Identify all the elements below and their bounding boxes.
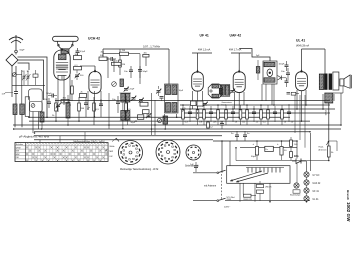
coil IFT2a — [221, 85, 225, 95]
trimmer C5 — [56, 100, 61, 112]
coil IFT1d — [172, 103, 177, 113]
trimmer circle — [13, 66, 23, 77]
trimmer below UF41 — [203, 102, 208, 107]
label UF 41 — [200, 34, 209, 38]
resistor below UF41 b — [197, 101, 203, 106]
svg-text:Dr.: Dr. — [266, 148, 269, 151]
resistor 50k — [217, 105, 224, 125]
bead left — [58, 44, 60, 46]
wire yoke leg left — [58, 42, 62, 50]
trimmer osc — [75, 70, 85, 80]
resistor 1M vert — [119, 49, 126, 75]
svg-text:LW: LW — [16, 157, 19, 159]
wire bus y136 — [34, 135, 222, 137]
capacitor 10nF c — [112, 96, 120, 113]
discriminator transformer — [208, 84, 223, 98]
svg-text:Diode: Diode — [222, 104, 227, 106]
wire V5 pins — [297, 90, 306, 121]
svg-text:UF 41: UF 41 — [200, 34, 209, 38]
resistor 1000 box — [112, 61, 122, 66]
label 10pF — [179, 90, 184, 92]
capacitor 0.5pF — [76, 48, 86, 56]
text pF-Abgleich — [19, 134, 50, 138]
resistor 40k — [143, 53, 149, 66]
wire switchbox drops — [240, 183, 270, 202]
wire field coil down — [328, 103, 330, 146]
output transformer — [319, 72, 339, 90]
pot circle — [157, 118, 161, 122]
resistor osc pack3 — [138, 115, 144, 120]
wire bus y129 — [13, 128, 341, 130]
antenna — [9, 35, 23, 50]
svg-text:0,1: 0,1 — [189, 113, 192, 115]
wire input loop outer — [18, 57, 48, 117]
text mit Antenne — [204, 185, 217, 188]
svg-text:50pF: 50pF — [20, 50, 26, 52]
capacitor 25 — [252, 106, 259, 124]
wire junction dots — [13, 100, 342, 203]
svg-text:Brandt: Brandt — [346, 190, 350, 200]
wire power second bus — [240, 147, 297, 149]
trimmer osc2 — [124, 87, 129, 92]
coil IFT1c — [166, 103, 171, 113]
mains switch lower — [193, 198, 226, 201]
trimmer C1 — [22, 71, 27, 86]
label 0.97-1.7MHz — [143, 45, 161, 49]
capacitor 10nF out — [281, 68, 290, 80]
switch position table frame — [15, 143, 108, 162]
resistor under UL41 — [291, 92, 299, 95]
capacitor row2 — [220, 121, 224, 129]
table X marks — [26, 146, 107, 161]
phono jacks — [319, 141, 338, 151]
resistor 30k — [74, 54, 82, 60]
svg-text:KW: KW — [16, 151, 19, 153]
capacitor 200pF — [44, 98, 51, 108]
wire V4 pins — [235, 92, 245, 117]
label 5pF — [256, 55, 260, 57]
capacitor 100pF b — [99, 99, 103, 117]
svg-text:URDOX: URDOX — [265, 186, 272, 188]
resistor at x226 — [225, 105, 228, 125]
label 494 28 mA — [296, 45, 310, 48]
svg-text:UCH 42: UCH 42 — [88, 37, 100, 41]
svg-text:60Ω: 60Ω — [294, 156, 298, 158]
resistor 0.2M row2 — [207, 122, 214, 129]
coil L2 antenna — [20, 70, 25, 127]
wire bus y105 — [180, 104, 330, 106]
wire input loop middle — [18, 60, 44, 100]
text Messsender — [74, 141, 106, 144]
coil L6 band — [66, 95, 70, 125]
svg-text:494 1,3 mA: 494 1,3 mA — [198, 49, 211, 52]
wire screen drops — [33, 112, 39, 134]
capacitor 1nF sw — [190, 162, 198, 172]
resistor at x268 — [267, 105, 270, 125]
capacitor 100pF — [107, 57, 116, 61]
wire top bus AVC — [103, 49, 169, 57]
oscillator coil pack frame — [120, 93, 132, 121]
capacitor at x275 — [273, 106, 277, 122]
coil L osc2 — [120, 79, 124, 87]
coil L1 antenna — [13, 66, 17, 127]
svg-text:Antennen: Antennen — [319, 148, 327, 151]
svg-text:UY 1N: UY 1N — [313, 175, 320, 177]
switch wafer view 2 — [156, 140, 180, 164]
wire bus y132 — [34, 131, 310, 133]
svg-text:100pF: 100pF — [46, 93, 52, 95]
caption Seitenansicht — [185, 164, 199, 167]
label 50pF pack — [131, 122, 136, 124]
capacitor at x190 — [188, 106, 192, 122]
wire trimmer row — [12, 70, 45, 85]
capacitor ratio b — [285, 78, 289, 87]
wire osc pack stubs — [123, 102, 128, 129]
coil L4 — [40, 100, 44, 129]
svg-text:Werkseitige Tastenbestückung -: Werkseitige Tastenbestückung - W-Nr. — [120, 168, 159, 171]
loudspeaker — [340, 75, 351, 88]
resistor 50k top — [99, 55, 107, 60]
svg-text:2k: 2k — [81, 92, 83, 94]
wire bus y140 — [34, 139, 213, 141]
switch comb teeth — [246, 168, 284, 173]
capacitor 50uF elco a — [251, 141, 259, 160]
resistor 0.5M vert — [125, 96, 132, 121]
switch levers — [230, 171, 268, 182]
resistor osc pack — [140, 102, 148, 106]
wire loop narrow — [25, 97, 29, 117]
capacitor under UL41 — [287, 93, 291, 95]
wire bus y117 — [29, 116, 290, 118]
switch assembly frame — [227, 166, 290, 184]
resistor 0.1M — [74, 65, 82, 70]
detector core — [267, 69, 273, 77]
label 0.25uF cluster — [182, 108, 191, 115]
wire table drops — [40, 132, 85, 143]
wire OT drops — [323, 94, 334, 109]
coil IFT2b — [225, 85, 229, 95]
svg-text:Heizk.: Heizk. — [319, 147, 325, 149]
coil OSCb — [126, 94, 130, 103]
resistor 0,3 — [182, 105, 189, 125]
caption Tastenbestueckung — [120, 168, 159, 171]
svg-text:1M: 1M — [199, 122, 202, 124]
resistor 0,1 — [239, 105, 246, 125]
svg-text:UF 41: UF 41 — [313, 191, 320, 193]
svg-text:1M: 1M — [122, 64, 125, 66]
capacitor 0.1uF mains — [243, 194, 256, 201]
IF transformer 2 frame — [220, 85, 230, 97]
resistor 30k box — [61, 98, 69, 103]
trimmer osc pack c — [146, 113, 151, 118]
tube V1 UCH42 mixer — [54, 48, 70, 80]
wire switchbox feed — [229, 141, 231, 166]
heater UY41 — [304, 172, 320, 177]
coil L9 low — [163, 116, 168, 129]
capacitor 50 — [287, 106, 294, 124]
band filter screen box — [30, 102, 43, 112]
resistor 0.3M vert — [93, 97, 100, 125]
detector transformer frame — [263, 61, 277, 84]
wire grid cap V1 — [61, 50, 63, 54]
tube V4 UAF42 — [233, 70, 245, 93]
wire det leads — [266, 84, 274, 105]
table row labels — [16, 143, 24, 159]
svg-text:50pF: 50pF — [131, 122, 136, 124]
coil IFT1a — [166, 85, 171, 95]
resistor at x204 — [203, 105, 206, 125]
label 1.25pF — [128, 89, 135, 91]
wire bus y125 — [13, 124, 341, 126]
wire grid feed UAF42 — [231, 53, 251, 72]
germanium diode det — [278, 76, 287, 81]
switch wafer view 3 small — [186, 145, 201, 160]
svg-text:1,25pF: 1,25pF — [128, 89, 135, 91]
wire V3 pins — [193, 91, 203, 113]
capacitor 50uF elco b — [277, 141, 287, 160]
svg-text:MW: MW — [110, 151, 114, 153]
label UL 41 — [296, 39, 305, 43]
wire corner x169 — [168, 49, 170, 84]
dial lamp — [290, 183, 300, 197]
wire det top — [239, 49, 270, 62]
svg-text:LW: LW — [110, 156, 113, 158]
heater UF41 — [304, 188, 320, 193]
wire yoke leg right — [69, 42, 73, 50]
coil OSCa — [121, 94, 125, 103]
coil det lower — [264, 78, 275, 82]
field coil — [324, 93, 333, 116]
wire osc verticals — [108, 57, 114, 78]
IF transformer 1 frame — [165, 84, 179, 113]
selenium rectifier diode — [292, 156, 306, 164]
heater UAF42 — [304, 180, 321, 185]
mains switch upper — [193, 170, 226, 174]
svg-text:100pF: 100pF — [279, 64, 285, 66]
ferrite antenna bar — [53, 36, 79, 41]
svg-text:UKW: UKW — [16, 147, 21, 149]
svg-text:1nF: 1nF — [2, 94, 6, 96]
coil IFT1b — [172, 85, 177, 95]
resistor 50k vert — [71, 80, 87, 101]
NTC resistor note — [227, 197, 236, 201]
wire bus y121 — [29, 120, 310, 122]
switch link dashed — [221, 174, 223, 199]
capacitor 10nF osc — [124, 66, 133, 78]
resistor 150 vert — [78, 97, 85, 121]
resistor at x247 — [246, 105, 249, 125]
tube V2 UCH42 — [89, 70, 101, 94]
tube V5 UL41 — [296, 70, 308, 91]
trimmer IFT1 — [156, 86, 161, 96]
wire output top — [302, 49, 326, 74]
wire heater chain — [306, 161, 308, 202]
text germanium note — [222, 101, 233, 106]
svg-text:6: 6 — [22, 71, 23, 73]
wire bus y109 — [180, 108, 335, 110]
capacitor IFT1 — [160, 97, 164, 102]
capacitor 1nF — [2, 92, 19, 96]
coil det upper — [264, 62, 275, 66]
svg-text:UAF 42: UAF 42 — [313, 182, 322, 185]
lightning arrester — [6, 54, 18, 66]
tube V3 UF41 — [192, 70, 204, 91]
capacitor 5nF p1 — [231, 131, 239, 141]
wire power right drop — [221, 141, 223, 173]
resistor osc pack2 — [143, 110, 150, 114]
resistor below UF41 a — [191, 101, 197, 106]
svg-text:MW: MW — [16, 154, 20, 156]
choke box — [265, 146, 274, 151]
wire power top corner — [213, 140, 222, 142]
resistor 0,5 — [260, 105, 267, 125]
resistor 1k2 ps — [290, 137, 299, 147]
wire switch tap — [242, 183, 244, 194]
svg-text:1nF: 1nF — [190, 164, 194, 166]
svg-text:Skalenlampe: Skalenlampe — [290, 195, 300, 197]
wire osc verticals2 — [109, 93, 155, 135]
wire bus y101 — [55, 100, 330, 102]
resistor 1k — [281, 105, 287, 125]
trimmer osc pack b — [139, 98, 144, 103]
label UCH 42 — [88, 37, 100, 41]
coil OSCd — [126, 111, 130, 121]
label 494 1.3 mA — [198, 49, 211, 52]
svg-text:Schalter: Schalter — [16, 143, 24, 146]
resistor 2k — [52, 98, 57, 121]
table side labels — [105, 139, 116, 159]
svg-text:30: 30 — [27, 71, 29, 73]
heater UL41 — [304, 196, 319, 201]
text model 1002 GW — [346, 202, 351, 222]
wire IFT1 drops — [165, 114, 177, 121]
coil L5 osc — [61, 49, 69, 54]
capacitor 5nF a — [84, 98, 91, 117]
svg-text:10pF: 10pF — [179, 90, 184, 92]
capacitor 5n — [231, 106, 238, 124]
wire det drops — [262, 84, 272, 105]
capacitor 50uF — [138, 66, 148, 78]
wire V2 pins — [88, 91, 101, 117]
wire right verticals — [295, 93, 341, 148]
coil OSCc — [121, 111, 125, 121]
wire antenna to arrester — [15, 53, 17, 55]
label 494 1.7 mA — [229, 49, 242, 52]
wire power low link — [236, 148, 290, 161]
URDOX resistor — [257, 184, 273, 188]
text brand — [346, 190, 350, 200]
shunt resistor — [257, 181, 264, 201]
potentiometer osc — [112, 82, 117, 87]
svg-text:0,97...1,7 MHz: 0,97...1,7 MHz — [143, 45, 161, 49]
wire speaker leads — [333, 72, 343, 93]
svg-text:40k: 40k — [144, 53, 147, 55]
capacitor 5nF p2 — [243, 131, 250, 141]
svg-text:(494) 28 mA: (494) 28 mA — [296, 45, 310, 48]
svg-text:494 1,7 mA: 494 1,7 mA — [229, 49, 242, 52]
capacitor ratio 100pF — [279, 61, 289, 71]
svg-text:0,5pF: 0,5pF — [80, 51, 86, 53]
label UAF 42 — [230, 34, 242, 38]
svg-text:mit Antenne: mit Antenne — [204, 185, 217, 188]
svg-text:UL 41: UL 41 — [313, 199, 320, 201]
svg-text:50μF: 50μF — [251, 156, 257, 158]
capacitor 100pF v2 — [46, 93, 57, 98]
wire mains bus — [224, 201, 310, 209]
wire loop round — [29, 89, 43, 100]
trimmer C2 — [26, 71, 31, 86]
bead right — [72, 44, 74, 46]
coil det left — [256, 60, 260, 80]
svg-text:50μF: 50μF — [143, 71, 149, 73]
label 40k — [101, 52, 105, 54]
svg-text:UL 41: UL 41 — [296, 39, 305, 43]
wire osc line B — [103, 54, 140, 84]
svg-text:pF-Abgleich u. 467 kHz: pF-Abgleich u. 467 kHz — [19, 134, 50, 138]
svg-text:1002 GW: 1002 GW — [346, 202, 351, 222]
trimmer IFT2 — [230, 89, 235, 94]
resistor 5k right — [328, 146, 335, 161]
switch wafer view 1 — [116, 138, 143, 165]
resistor 1M — [196, 105, 202, 125]
antenna coupling capacitor — [15, 50, 25, 53]
resistor 700 — [120, 50, 129, 55]
wire input loop inner — [18, 63, 30, 70]
svg-text:220V~: 220V~ — [224, 207, 231, 209]
wire power top bus — [222, 140, 297, 142]
svg-text:UAF 42: UAF 42 — [230, 34, 242, 38]
trimmer osc pack a — [131, 96, 136, 101]
wire V2 grid — [80, 66, 95, 72]
capacitor 10n — [209, 106, 217, 124]
wire bus y113 — [184, 112, 330, 114]
wire power right verticals — [290, 133, 329, 183]
wire grid feed UF41 — [192, 53, 212, 72]
wire V1 pins — [58, 75, 70, 105]
wire arrester down — [11, 66, 13, 98]
resistor 60 ps — [290, 147, 299, 161]
